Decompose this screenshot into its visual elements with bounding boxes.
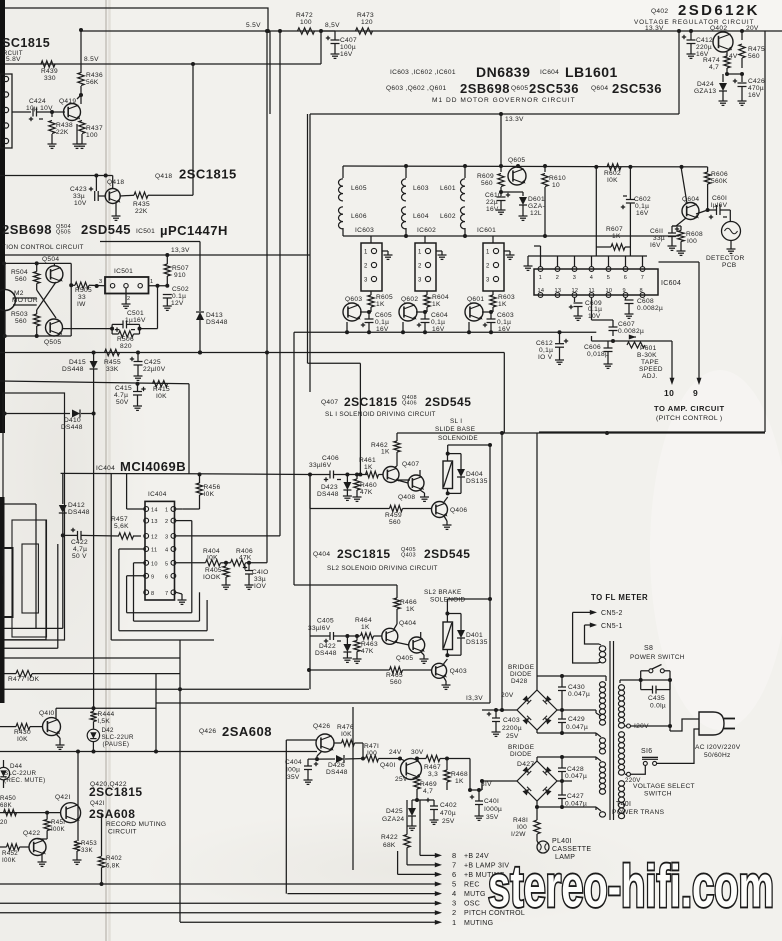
transistor Q410 [43, 718, 61, 736]
svg-text:M1 DD MOTOR GOVERNOR CIRCU: M1 DD MOTOR GOVERNOR CIRCUIT [432, 97, 576, 104]
svg-text:3: 3 [99, 279, 102, 285]
svg-text:1K: 1K [381, 449, 390, 456]
diode D401 [447, 613, 461, 615]
svg-text:2SB698: 2SB698 [2, 222, 52, 237]
svg-text:R605: R605 [376, 294, 393, 301]
diode D425 zener [408, 808, 416, 816]
diode D413 [196, 312, 204, 320]
svg-text:8: 8 [151, 591, 154, 597]
svg-text:25V: 25V [506, 733, 519, 740]
wire ic404 loop c [119, 548, 146, 550]
IC IC603 [361, 243, 382, 291]
svg-text:0.0lµ: 0.0lµ [650, 703, 666, 710]
node vreg out [725, 72, 729, 76]
svg-text:Q505: Q505 [44, 339, 61, 346]
coil L601 L602 [464, 166, 466, 178]
svg-text:100: 100 [86, 132, 98, 139]
svg-text:Q42I: Q42I [55, 794, 71, 801]
svg-text:R459: R459 [385, 512, 402, 519]
svg-text:2SB698: 2SB698 [460, 81, 510, 96]
svg-text:12: 12 [151, 534, 158, 540]
wire bus v3 [293, 332, 295, 585]
wire d428 top [536, 433, 538, 690]
svg-text:IO V: IO V [538, 354, 553, 361]
svg-text:C501: C501 [127, 310, 144, 317]
svg-text:1: 1 [418, 250, 422, 256]
svg-text:Q406: Q406 [450, 507, 467, 514]
resistor R473 [356, 28, 373, 34]
wire left corner links [4, 627, 63, 629]
capacitor C603 [490, 312, 492, 319]
wire y352 rail [0, 352, 504, 354]
resistor R438 [51, 112, 53, 117]
svg-text:16V: 16V [486, 206, 499, 213]
svg-text:C610: C610 [485, 192, 502, 199]
wire q422 gnd [41, 854, 43, 858]
wire q426 drop [362, 743, 364, 759]
svg-text:2SC536: 2SC536 [612, 81, 662, 96]
svg-text:C502: C502 [172, 286, 189, 293]
capacitor C429 [558, 718, 566, 720]
transistor Q403 [432, 663, 447, 678]
svg-text:2: 2 [556, 275, 559, 281]
node 13.3V gov [499, 112, 503, 116]
svg-text:I00K: I00K [2, 857, 17, 864]
wire q505 rail [4, 335, 71, 337]
svg-text:Q404: Q404 [313, 551, 330, 558]
capacitor C427 [558, 794, 566, 796]
svg-text:820: 820 [120, 343, 132, 350]
resistor R463 [354, 641, 360, 652]
motor M2 [0, 290, 16, 311]
svg-text:GZA13: GZA13 [694, 88, 716, 95]
ground Q603 [346, 322, 348, 332]
detector osc [722, 222, 741, 241]
svg-text:8: 8 [452, 851, 456, 860]
svg-text:I0K: I0K [341, 731, 352, 738]
transistor Q421 [61, 803, 81, 823]
wire q410 emitter [56, 734, 60, 738]
wire sec taps [596, 733, 601, 737]
svg-text:10µ 10V: 10µ 10V [26, 105, 53, 112]
resistor R477 [16, 670, 32, 676]
svg-text:LB1601: LB1601 [565, 64, 618, 80]
svg-text:C40I: C40I [484, 798, 499, 805]
svg-text:16V: 16V [376, 326, 389, 333]
svg-text:1K: 1K [361, 624, 370, 631]
wire y812 rail [0, 812, 61, 814]
wire CN5-2 [590, 610, 597, 615]
svg-text:I00: I00 [687, 238, 697, 245]
svg-text:Q602: Q602 [401, 296, 418, 303]
wire SL2 bottom 13.3V [156, 702, 490, 704]
svg-text:R444: R444 [98, 711, 115, 718]
svg-text:D422: D422 [319, 643, 336, 650]
wire s16 net [669, 680, 671, 726]
svg-text:R422: R422 [381, 834, 398, 841]
resistor R455 [105, 349, 120, 355]
svg-text:2SD545: 2SD545 [425, 395, 471, 409]
wire d428 left [482, 709, 517, 711]
connector left mid [4, 548, 13, 617]
wire pin1 [149, 285, 168, 287]
wire pitch 9 [698, 262, 700, 381]
wire y433 long [397, 432, 765, 434]
svg-text:TAPE: TAPE [641, 359, 659, 366]
svg-text:CASSETTE: CASSETTE [552, 846, 591, 853]
svg-text:33: 33 [78, 294, 86, 301]
svg-text:13.3V: 13.3V [645, 25, 664, 32]
wire q504 rail [4, 262, 71, 264]
svg-text:330: 330 [44, 75, 56, 82]
resistor R475 [740, 29, 744, 33]
svg-text:(PITCH CONTROL ): (PITCH CONTROL ) [656, 415, 722, 422]
svg-text:4,7: 4,7 [423, 788, 433, 795]
svg-text:C422: C422 [71, 539, 88, 546]
svg-text:2SC536: 2SC536 [529, 81, 579, 96]
svg-text:Q418: Q418 [155, 173, 172, 180]
resistor R459 [390, 505, 403, 511]
svg-text:8: 8 [640, 288, 643, 294]
svg-text:11: 11 [589, 288, 595, 294]
svg-text:470µ: 470µ [440, 810, 456, 817]
svg-text:R610: R610 [549, 175, 566, 182]
svg-text:20: 20 [0, 819, 8, 826]
svg-text:MUTING: MUTING [464, 920, 493, 927]
svg-text:4.7µ: 4.7µ [114, 392, 128, 399]
capacitor C401 [470, 796, 474, 798]
wire D415 drop [93, 369, 95, 708]
svg-text:D413: D413 [206, 312, 223, 319]
diode D415 [93, 353, 95, 362]
wire q401 emitter [415, 798, 419, 802]
svg-text:R468: R468 [451, 771, 468, 778]
svg-text:D415: D415 [69, 359, 86, 366]
svg-text:12V: 12V [171, 300, 184, 307]
svg-text:D423: D423 [321, 484, 338, 491]
svg-text:C426: C426 [748, 78, 765, 85]
svg-text:I/2W: I/2W [511, 831, 526, 838]
svg-text:C423: C423 [70, 186, 87, 193]
svg-text:R460: R460 [360, 482, 377, 489]
svg-text:2: 2 [452, 908, 456, 917]
wire Q rail [294, 331, 596, 333]
coil L605 L606 [342, 166, 344, 178]
svg-text:5: 5 [165, 561, 168, 567]
svg-text:R456: R456 [204, 484, 221, 491]
transistor Q505 [46, 319, 63, 336]
wire d428 right [557, 709, 596, 711]
transistor Q605 [508, 167, 526, 185]
wire prim top [619, 680, 621, 683]
svg-text:1: 1 [364, 250, 368, 256]
wire motor cross [13, 297, 37, 299]
wire out6 feed [397, 851, 399, 874]
svg-text:I6V: I6V [650, 242, 661, 249]
svg-text:TO FL METER: TO FL METER [591, 593, 648, 602]
svg-text:L604: L604 [413, 213, 429, 220]
wire 5.8V rail [5, 63, 321, 65]
svg-text:1µ16V: 1µ16V [125, 317, 146, 324]
svg-text:47K: 47K [361, 648, 374, 655]
svg-text:RCUIT: RCUIT [3, 51, 23, 57]
svg-text:0.0082µ: 0.0082µ [637, 305, 663, 312]
resistor R603 [490, 295, 496, 307]
resistor R444 [90, 712, 96, 722]
svg-text:1: 1 [165, 508, 168, 514]
svg-text:R415: R415 [153, 386, 170, 393]
transistor Q603 [343, 303, 361, 321]
svg-text:L602: L602 [440, 213, 456, 220]
svg-text:2SC1815: 2SC1815 [179, 167, 237, 182]
svg-text:6: 6 [452, 870, 456, 879]
capacitor C608 [625, 297, 627, 300]
svg-text:220µ: 220µ [696, 44, 712, 51]
svg-text:IC501: IC501 [114, 268, 133, 275]
diode D426 [317, 758, 335, 760]
svg-text:Q418: Q418 [107, 179, 124, 186]
svg-text:R450: R450 [0, 795, 16, 802]
svg-text:lµl6V: lµl6V [711, 202, 728, 209]
svg-text:DS448: DS448 [62, 366, 84, 373]
svg-text:C403: C403 [503, 717, 520, 724]
capacitor C424 [12, 111, 31, 113]
svg-text:C404: C404 [285, 759, 302, 766]
wire output 8 [420, 854, 436, 856]
svg-text:DS448: DS448 [317, 491, 339, 498]
resistor R605 [368, 295, 374, 307]
svg-text:0,1µ: 0,1µ [497, 319, 511, 326]
svg-text:30V: 30V [411, 749, 424, 756]
capacitor C426 [741, 74, 743, 82]
page edge black bar [0, 0, 5, 433]
svg-text:D410: D410 [64, 417, 81, 424]
svg-text:Q605: Q605 [511, 85, 528, 92]
svg-text:R402: R402 [106, 855, 122, 862]
capacitor C602 [629, 167, 631, 200]
svg-text:33µ: 33µ [653, 235, 665, 242]
svg-text:IC404: IC404 [96, 465, 115, 472]
svg-text:R472: R472 [296, 12, 313, 19]
svg-text:R475: R475 [748, 46, 765, 53]
wire output 1 [180, 921, 436, 923]
svg-text:R474: R474 [703, 57, 720, 64]
wire y474 link [61, 472, 189, 474]
svg-text:I000µ: I000µ [484, 806, 502, 813]
resistor R453 [74, 841, 80, 851]
capacitor C422 [77, 531, 79, 540]
svg-text:R437: R437 [86, 125, 103, 132]
svg-text:L603: L603 [413, 185, 429, 192]
svg-text:T40I: T40I [616, 801, 631, 808]
svg-text:120: 120 [361, 19, 373, 26]
svg-text:I3,3V: I3,3V [466, 695, 483, 702]
svg-text:R473: R473 [357, 12, 374, 19]
wire SL1 top [447, 445, 449, 454]
ground IC603 [382, 250, 388, 252]
svg-text:DS135: DS135 [466, 478, 488, 485]
svg-text:C6II: C6II [650, 228, 663, 235]
wire mid verticals [179, 640, 181, 922]
resistor R460 [354, 479, 360, 490]
wire 120V tap [627, 724, 631, 728]
IC404 right pins [171, 507, 176, 512]
svg-text:20V: 20V [501, 692, 514, 699]
svg-text:M2: M2 [14, 290, 24, 297]
wire d427 bottom [536, 801, 538, 807]
svg-text:2: 2 [486, 264, 490, 270]
wire CN5 drops [573, 612, 597, 663]
svg-text:R439: R439 [41, 68, 58, 75]
svg-text:IW: IW [77, 301, 86, 308]
svg-text:16V: 16V [340, 51, 353, 58]
svg-text:AC I20V/220V: AC I20V/220V [695, 744, 741, 751]
svg-text:CIRCUIT: CIRCUIT [108, 829, 137, 836]
svg-text:Q505: Q505 [56, 230, 71, 236]
svg-text:16V: 16V [432, 326, 445, 333]
svg-text:Q605: Q605 [508, 157, 525, 164]
svg-text:560: 560 [15, 276, 27, 283]
svg-text:R603: R603 [498, 294, 515, 301]
capacitor C609 [574, 297, 576, 302]
svg-text:560: 560 [389, 519, 401, 526]
svg-text:1K: 1K [612, 233, 621, 240]
svg-text:3: 3 [452, 899, 456, 908]
wire vreg right edge [764, 31, 766, 432]
svg-text:IC404: IC404 [148, 491, 167, 498]
wire governor box left [309, 114, 311, 392]
node Q419 collector [79, 93, 83, 97]
svg-text:R455: R455 [104, 359, 121, 366]
svg-text:10: 10 [606, 288, 613, 294]
led D42 [87, 729, 99, 741]
svg-text:14: 14 [538, 288, 545, 294]
svg-text:(PAUSE): (PAUSE) [103, 741, 130, 748]
transistor Q418 [105, 189, 120, 204]
wire ic404 loop b [127, 508, 146, 510]
resistor R439 [41, 61, 55, 67]
svg-text:TO AMP. CIRCUIT: TO AMP. CIRCUIT [654, 404, 725, 413]
svg-text:C604: C604 [431, 312, 448, 319]
svg-text:22µ: 22µ [486, 199, 498, 206]
svg-text:S8: S8 [644, 645, 653, 652]
transformer fl winding [599, 646, 605, 652]
transformer secondary main [599, 682, 605, 687]
ground IC601 [504, 250, 510, 252]
transistor Q405 [409, 637, 425, 653]
IC IC604 [534, 269, 658, 295]
svg-text:Q603: Q603 [345, 296, 362, 303]
resistor R462 [394, 441, 400, 452]
svg-text:6: 6 [624, 275, 627, 281]
svg-text:33K: 33K [106, 366, 119, 373]
svg-text:DIODE: DIODE [510, 751, 532, 758]
svg-text:L601: L601 [440, 185, 456, 192]
svg-text:SL I: SL I [450, 418, 462, 425]
svg-text:3: 3 [165, 534, 168, 540]
svg-text:R45I: R45I [51, 819, 65, 826]
resistor R437 [79, 121, 85, 134]
wire output 4 [287, 893, 436, 895]
svg-text:33µ: 33µ [254, 576, 266, 583]
resistor R474 [724, 56, 730, 68]
svg-text:25V: 25V [395, 776, 408, 783]
resistor R468 [444, 770, 450, 782]
svg-text:IOV: IOV [254, 583, 267, 590]
svg-text:DIODE: DIODE [510, 671, 532, 678]
capacitor C407 [321, 30, 335, 32]
transistor Q401 [401, 759, 422, 780]
svg-text:D428: D428 [511, 678, 528, 685]
svg-text:1K: 1K [498, 301, 507, 308]
wire Q418 drop [192, 64, 194, 195]
svg-text:Q405: Q405 [396, 655, 413, 662]
svg-text:7: 7 [641, 275, 644, 281]
svg-text:9: 9 [623, 288, 626, 294]
svg-text:4: 4 [452, 889, 456, 898]
svg-text:Q407: Q407 [321, 399, 338, 406]
svg-text:2SC1815: 2SC1815 [337, 547, 391, 561]
svg-text:I0K: I0K [204, 491, 215, 498]
svg-text:R436: R436 [86, 72, 103, 79]
wire 13.3V rail left [5, 254, 310, 256]
resistor R436 [78, 73, 84, 86]
transformer T401 core [609, 641, 611, 820]
svg-text:0.0082µ: 0.0082µ [618, 328, 644, 335]
svg-text:Q422: Q422 [23, 830, 40, 837]
wire q405 q403 link [420, 632, 422, 638]
svg-text:50V: 50V [116, 399, 129, 406]
wire 31V to bridge [481, 786, 483, 790]
svg-text:13: 13 [555, 288, 562, 294]
svg-text:GZA-: GZA- [528, 203, 545, 210]
svg-text:C415: C415 [115, 385, 132, 392]
svg-text:R430: R430 [14, 729, 31, 736]
transistor Q426 [316, 734, 334, 752]
svg-text:1: 1 [452, 918, 456, 927]
resistor R456 [196, 483, 202, 495]
solenoid SL2 [443, 622, 453, 650]
svg-text:22µl0V: 22µl0V [143, 366, 166, 373]
svg-text:IC603: IC603 [355, 227, 374, 234]
lamp PL401 [537, 841, 549, 853]
svg-text:C406: C406 [322, 455, 339, 462]
svg-text:TION CONTROL CIRCUIT: TION CONTROL CIRCUIT [2, 244, 84, 251]
wire coil bottom rail [343, 235, 679, 237]
svg-text:C608: C608 [637, 298, 654, 305]
svg-text:C606: C606 [584, 344, 601, 351]
svg-text:C4IO: C4IO [252, 569, 269, 576]
node 5.5V [266, 29, 270, 33]
svg-text:3: 3 [486, 278, 490, 284]
resistor R507 [164, 264, 170, 276]
svg-text:12: 12 [572, 288, 579, 294]
resistor R415 [153, 381, 168, 387]
wire out8 feed [419, 800, 421, 855]
svg-text:SLC-22UR: SLC-22UR [102, 734, 135, 741]
resistor R452 [7, 844, 20, 850]
diode D423 [346, 475, 348, 483]
svg-text:C405: C405 [317, 618, 334, 625]
svg-text:1: 1 [486, 250, 490, 256]
svg-text:SC1815: SC1815 [2, 36, 50, 50]
svg-text:1K: 1K [432, 301, 441, 308]
capacitor C415 [133, 391, 142, 393]
svg-text:Q426: Q426 [313, 723, 330, 730]
svg-text:2SC1815: 2SC1815 [89, 785, 143, 799]
svg-text:CN5-1: CN5-1 [601, 623, 623, 630]
wire bus v2 [279, 31, 281, 536]
